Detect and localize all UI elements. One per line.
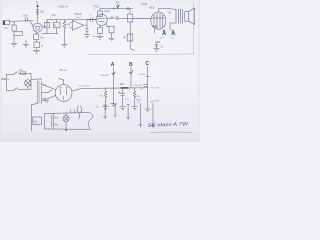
resistor R14 [104,88,106,103]
tick x [111,17,113,19]
ground [145,109,151,112]
resistor R15 [133,88,135,103]
svg-text:w: w [93,9,95,11]
svg-text:6L6: 6L6 [34,121,39,123]
wires transformer to tube [42,84,56,101]
resistor R6 [86,25,88,35]
output tube V3 6L6 [151,12,166,29]
output transformer T2 windings [176,9,178,23]
heater top wire [53,112,90,115]
cathode resistor R11 [163,29,165,33]
resistor R3 [46,20,48,23]
B+ top rail [100,8,133,10]
svg-text:1w: 1w [160,47,163,49]
svg-text:230 v: 230 v [1,77,9,81]
ground [120,107,126,110]
triode V1 [33,23,42,32]
capacitor C5 [116,16,118,20]
plus mark [118,92,120,94]
cathode cap C3 [35,40,37,42]
svg-text:6v3: 6v3 [54,125,58,127]
ground [111,104,117,107]
switch S1 [13,72,18,75]
ground [103,107,109,110]
ground [154,48,160,51]
svg-text:Tone: Tone [76,17,82,19]
svg-text:6L6b: 6L6b [142,2,148,6]
tick x on rail [113,8,115,10]
svg-text:GZ34: GZ34 [36,78,43,81]
svg-text:12ax7: 12ax7 [104,10,111,13]
svg-text:330+330: 330+330 [133,85,142,87]
rectifier heater stub [59,78,64,84]
cathode chain cap C2 [35,32,37,34]
underline pencil [150,131,192,134]
cathode R9 [99,25,101,27]
svg-text:1k: 1k [41,45,44,48]
wire [13,31,15,34]
left vertical [5,74,7,90]
svg-text:4x010k: 4x010k [139,74,147,76]
tick [146,75,150,77]
cap C8 [120,88,124,103]
grid resistor R10 [105,24,107,27]
switch S1b [13,88,18,91]
heater S curl [88,113,92,130]
svg-text:47u: 47u [125,99,129,101]
svg-text:60n: 60n [96,107,100,109]
heater bottom wire [53,128,90,130]
svg-text:10u: 10u [40,36,45,39]
transformer drop wire [31,103,38,131]
ground [33,50,40,53]
cathode cap C6 [171,29,174,33]
op-amp U1 [72,20,83,30]
wire A below rail [112,88,114,104]
svg-text:5k: 5k [168,12,171,15]
ground [132,107,138,110]
heater curve to tube [77,106,82,113]
svg-text:550 v/W: 550 v/W [101,75,110,77]
drop pin 5 [151,103,155,127]
capacitor C1 [26,18,28,22]
border frame of upper schematic [88,2,194,55]
mains bottom wire [6,89,12,91]
svg-text:2A: 2A [19,69,22,72]
ground [84,35,90,38]
svg-text:Rbias: Rbias [93,36,99,38]
wire [46,28,48,34]
wire supply drop [37,7,39,16]
ground [97,36,103,39]
heater note cap [44,101,48,102]
capacitor C11 coupling [91,18,93,22]
node C drop wire [147,66,149,109]
wire grid [30,21,34,27]
rectifier tube V4 [55,85,72,102]
svg-text:6L6: 6L6 [150,6,155,10]
svg-text:100n: 100n [23,16,29,18]
svg-text:47k: 47k [67,24,72,26]
svg-text:47u: 47u [136,96,140,98]
wire [13,34,15,43]
wire plate up [158,9,170,12]
svg-text:Rb 16kV: Rb 16kV [151,88,160,90]
wire plate [37,16,39,22]
ground under stage1 [23,40,29,47]
wire grid to tube [133,17,151,19]
pilot lamp [63,116,69,122]
tick x [123,36,125,38]
node tick [117,4,119,8]
ground [61,44,67,47]
right vertical [30,73,32,89]
green mark B [163,32,166,35]
node on rail [127,7,129,9]
arrow down [65,128,67,131]
drop pin 1 [103,105,106,119]
fuse F1 [21,72,26,74]
choke L1 [121,87,128,89]
resistor R7 plate [99,9,101,17]
B+ rail lower [96,87,148,89]
wire node A drop [112,67,114,88]
svg-text:1M: 1M [4,27,7,30]
svg-text:Gw: Gw [150,102,154,104]
wire tube out [72,88,96,91]
svg-text:C: C [36,0,39,4]
svg-text:0.1u 350mV: 0.1u 350mV [79,85,91,87]
ticks on heater wire [70,109,74,112]
mains top wire [6,73,12,75]
resistor R8 grid stopper [128,14,133,22]
power transformer T1 [37,81,39,103]
green tick B [130,71,133,74]
wire input [10,20,33,23]
svg-text:A: A [111,62,115,68]
svg-text:10k: 10k [40,10,45,14]
svg-text:50u: 50u [171,38,175,40]
green check [116,5,119,8]
wire stage rail [42,19,98,26]
supply arrow [36,4,39,7]
svg-text:42 H: 42 H [60,68,67,72]
green tick A [112,72,115,75]
input jack J1 [5,20,10,24]
cap C10 [144,85,148,87]
svg-text:470: 470 [160,38,164,40]
triode V2 [96,14,107,25]
wire node B drop [130,67,132,88]
wire to transformer [28,79,37,81]
ground rail [42,33,58,35]
resistor R4 [54,22,60,28]
svg-text:40u: 40u [100,96,104,98]
wire to grid [118,17,150,19]
svg-text:10H: 10H [120,83,125,86]
lamp [25,80,31,86]
drop pin 3 [126,105,130,120]
wire V2 to cap [107,17,115,19]
svg-text:2k: 2k [54,26,57,28]
resistor R13 [127,34,133,41]
resistor R2 grid [13,21,15,25]
resistor R5 zigzag [63,20,66,32]
svg-text:22k: 22k [95,6,100,8]
svg-text:422 H: 422 H [58,5,68,9]
OT core [181,9,183,23]
svg-text:47u: 47u [140,88,144,90]
wire [63,31,65,44]
heater winding box [44,114,53,129]
speaker SPK [185,12,189,22]
drop pin 4 [139,103,143,127]
wire output [84,20,91,26]
label box [33,117,42,124]
volume pot box [14,31,22,36]
wire B feed drop [130,22,135,51]
cathode marks under tube [153,26,157,33]
svg-text:6v3: 6v3 [54,118,58,120]
svg-text:tp NGV: tp NGV [153,99,160,102]
svg-text:31: 31 [116,1,120,5]
svg-text:1u: 1u [89,15,92,17]
resistor R1 10k [36,10,38,15]
svg-text:SE class A 7W: SE class A 7W [147,121,189,127]
svg-text:7591A: 7591A [74,13,82,16]
svg-text:2x2: 2x2 [52,13,57,17]
drop pin 2 [114,105,117,116]
green mark A [172,32,175,35]
svg-text:Gw: Gw [137,102,141,104]
ground [11,43,17,46]
svg-text:100k: 100k [155,41,161,44]
